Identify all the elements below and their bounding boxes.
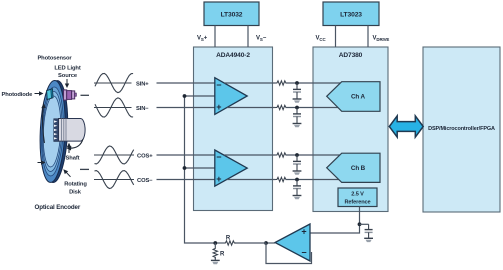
wire Vocm stub amp2 — [185, 167, 215, 169]
resistor cos+ — [276, 153, 288, 157]
wire SIN- to amp — [157, 107, 215, 109]
capacitor C2 — [293, 108, 302, 128]
svg-text:Rotating: Rotating — [64, 182, 87, 188]
wire to AD7380 ChB+ — [286, 154, 341, 156]
svg-text:Source: Source — [58, 73, 78, 79]
svg-text:COS−: COS− — [137, 178, 153, 184]
shaft rotation arrow — [70, 139, 84, 148]
wire LT3032 to ADA4940 Vs+ — [214, 26, 216, 48]
node sin- cap — [295, 106, 299, 110]
op-amp U1A — [215, 78, 247, 115]
arrow to shaft — [68, 146, 70, 153]
regulator LT3023 — [323, 2, 379, 26]
block DSP/Microcontroller/FPGA — [423, 47, 500, 212]
wire ref cap branch — [360, 223, 369, 225]
waveform SIN+ baseline — [94, 82, 132, 84]
encoder shaft cylinder — [59, 119, 86, 142]
op-amp U1B — [215, 150, 247, 186]
svg-text:Shaft: Shaft — [66, 156, 80, 162]
wire dash encoder to cos pair — [80, 168, 89, 170]
svg-text:Optical Encoder: Optical Encoder — [35, 204, 81, 211]
svg-text:LT3023: LT3023 — [340, 12, 362, 19]
node sin+ cap — [295, 81, 299, 85]
wire OUT+ cos — [224, 154, 275, 156]
svg-text:VDRIVE: VDRIVE — [373, 36, 390, 43]
svg-text:AD7380: AD7380 — [339, 52, 363, 59]
waveform SIN- baseline — [94, 107, 132, 109]
wire SIN+ to amp — [157, 82, 215, 84]
svg-text:+: + — [301, 227, 306, 237]
node ref cap — [358, 222, 362, 226]
led component — [64, 90, 77, 100]
bus arrow AD7380 to DSP — [389, 116, 423, 137]
svg-text:Reference: Reference — [345, 200, 371, 206]
svg-text:2.5 V: 2.5 V — [351, 192, 364, 198]
wire OUT- sin — [227, 107, 276, 109]
wire COS+ to amp — [157, 154, 215, 156]
wire to AD7380 ChA- — [286, 107, 338, 109]
node cos- cap — [295, 178, 299, 182]
waveform SIN+ sine — [95, 74, 133, 93]
svg-text:Ch B: Ch B — [351, 165, 366, 172]
svg-text:Photodiode: Photodiode — [2, 92, 34, 98]
wire divider down — [214, 243, 216, 247]
resistor R shunt — [213, 247, 217, 259]
svg-text:SIN−: SIN− — [136, 106, 149, 112]
capacitor C1 — [293, 83, 302, 103]
resistor cos- — [276, 177, 288, 181]
resistor R series — [224, 241, 236, 245]
svg-text:R: R — [220, 252, 225, 258]
resistor sin+ — [276, 81, 288, 85]
waveform COS+ sine — [95, 146, 134, 164]
wire buffer output — [266, 242, 275, 244]
capacitor C3 — [293, 155, 302, 175]
IC block ADA4940-2 — [194, 47, 273, 211]
node cos+ cap — [295, 153, 299, 157]
wire 2.5V down — [310, 207, 360, 234]
encoder disk — [38, 80, 70, 183]
svg-text:LT3032: LT3032 — [221, 12, 243, 19]
svg-text:−: − — [216, 152, 221, 162]
wire COS- to amp — [157, 179, 215, 181]
ground R shunt — [211, 260, 220, 264]
svg-text:−: − — [216, 80, 221, 90]
wire LT3023 to AD7380 Vdrive — [367, 26, 369, 48]
ground ref cap — [364, 238, 373, 242]
arrow to LED — [66, 79, 68, 85]
wire Vocm vertical — [185, 96, 216, 243]
wire LT3032 to ADA4940 Vs- — [247, 26, 249, 48]
wire LT3023 to AD7380 Vcc — [335, 26, 337, 48]
wire OUT+ sin — [224, 82, 275, 84]
op-amp buffer U2 — [275, 224, 310, 261]
wire to AD7380 ChB- — [286, 179, 339, 181]
wire to AD7380 ChA+ — [286, 82, 341, 84]
node Vocm amp2 — [183, 166, 187, 170]
wire OUT- cos — [227, 179, 276, 181]
arrow to photodiode — [35, 93, 41, 95]
svg-text:Disk: Disk — [69, 190, 82, 196]
wire R to buffer — [235, 242, 266, 244]
regulator LT3032 — [204, 2, 259, 26]
reference block 2.5V — [338, 188, 377, 207]
svg-text:ADA4940-2: ADA4940-2 — [216, 52, 250, 59]
svg-text:+: + — [216, 174, 221, 184]
svg-text:COS+: COS+ — [137, 153, 153, 159]
photodiode element — [47, 89, 53, 100]
svg-text:SIN+: SIN+ — [136, 81, 149, 87]
capacitor C4 — [293, 180, 302, 200]
arrow into disk lower-left — [38, 162, 43, 164]
svg-text:VS+: VS+ — [197, 36, 208, 43]
wire node to R series — [215, 242, 224, 244]
capacitor Cref — [365, 224, 373, 238]
svg-text:VS−: VS− — [256, 36, 267, 43]
wire feedback loop — [266, 243, 312, 264]
svg-text:Ch A: Ch A — [351, 94, 366, 101]
svg-text:VCC: VCC — [316, 36, 327, 43]
IC block AD7380 — [313, 47, 388, 212]
adc channel Ch B — [327, 153, 380, 182]
waveform COS+ baseline — [94, 154, 134, 156]
svg-text:Photosensor: Photosensor — [37, 56, 72, 62]
arrow to rotating disk — [66, 172, 71, 177]
node R divider — [213, 241, 217, 245]
node buffer out — [264, 241, 268, 245]
wire dash encoder to sin pair — [81, 94, 90, 96]
waveform COS- sine — [95, 171, 134, 189]
node Vocm amp1 — [183, 94, 187, 98]
svg-text:−: − — [301, 247, 306, 257]
adc channel Ch A — [327, 82, 380, 112]
resistor sin- — [276, 105, 288, 109]
waveform SIN- sine — [95, 98, 133, 117]
wire Vocm stub amp1 — [185, 95, 215, 97]
wire shunt to gnd — [214, 257, 216, 260]
svg-text:+: + — [216, 102, 221, 112]
svg-text:LED Light: LED Light — [54, 66, 80, 72]
rotation arrow left — [43, 107, 45, 143]
svg-text:DSP/Microcontroller/FPGA: DSP/Microcontroller/FPGA — [428, 126, 495, 132]
encoder code track hatch — [54, 119, 59, 142]
waveform COS- baseline — [94, 179, 134, 181]
